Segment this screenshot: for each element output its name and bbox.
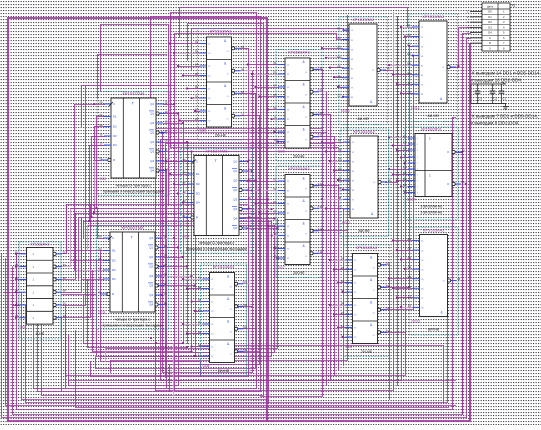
svg-text:DD10: DD10	[341, 109, 350, 113]
svg-text:O: O	[372, 70, 374, 72]
svg-text:DD3: DD3	[99, 311, 106, 315]
svg-text:O: O	[373, 182, 375, 184]
svg-text:10: 10	[198, 330, 201, 334]
svg-text:Q4: Q4	[150, 159, 154, 163]
svg-text:04: 04	[341, 279, 344, 283]
svg-text:01: 01	[15, 250, 18, 254]
svg-text:Q4: Q4	[150, 169, 154, 173]
svg-text:09: 09	[100, 100, 103, 104]
svg-text:12: 12	[274, 129, 277, 133]
svg-text:01: 01	[407, 24, 411, 28]
svg-text:09: 09	[274, 106, 277, 110]
svg-text:06: 06	[248, 196, 251, 200]
svg-text:КР1533ЛА3: КР1533ЛА3	[356, 245, 378, 250]
svg-text:13: 13	[274, 255, 277, 259]
svg-text:08: 08	[387, 306, 390, 310]
svg-text:O: O	[373, 335, 375, 337]
svg-text:R: R	[489, 41, 491, 45]
svg-text:O: O	[305, 72, 307, 74]
svg-text:Q4: Q4	[149, 303, 153, 307]
svg-text:четыре D-триггера с: четыре D-триггера с	[199, 241, 235, 245]
svg-text:09: 09	[99, 234, 102, 238]
svg-text:DD8: DD8	[203, 364, 210, 368]
svg-text:03: 03	[407, 43, 411, 47]
svg-text:09: 09	[183, 158, 186, 162]
svg-text:14: 14	[164, 301, 167, 305]
svg-text:12: 12	[341, 324, 344, 328]
svg-text:12: 12	[198, 343, 201, 347]
svg-text:04: 04	[407, 52, 411, 56]
svg-text:06: 06	[164, 272, 167, 276]
svg-text:03: 03	[337, 46, 341, 50]
svg-text:и выводам 8 DD2-DD4.: и выводам 8 DD2-DD4.	[471, 121, 520, 126]
svg-text:прямыми и инверсными выходами: прямыми и инверсными выходами	[103, 190, 164, 194]
svg-text:КР1533ТМ8: КР1533ТМ8	[206, 149, 229, 154]
svg-text:01: 01	[403, 135, 407, 139]
svg-text:Q4: Q4	[149, 293, 153, 297]
svg-text:X: X	[318, 227, 320, 231]
svg-text:6-НЕ: 6-НЕ	[36, 332, 45, 336]
svg-text:12: 12	[63, 314, 66, 318]
svg-text:D4: D4	[196, 201, 200, 205]
svg-text:11: 11	[407, 81, 410, 85]
svg-text:10: 10	[165, 119, 168, 123]
svg-text:DD9: DD9	[346, 345, 353, 349]
svg-text:DD5: DD5	[200, 129, 207, 133]
svg-text:O: O	[447, 150, 449, 154]
svg-text:O: O	[442, 67, 444, 69]
svg-text:08: 08	[320, 227, 323, 231]
svg-text:Q2: Q2	[149, 265, 153, 269]
svg-text:08: 08	[244, 325, 247, 329]
svg-text:DD14: DD14	[407, 198, 416, 202]
svg-text:X: X	[243, 348, 245, 352]
svg-text:09: 09	[15, 289, 18, 293]
svg-text:R: R	[112, 292, 114, 296]
svg-text:O: O	[230, 287, 232, 289]
svg-text:O: O	[305, 95, 307, 97]
svg-text:05: 05	[274, 93, 277, 97]
svg-text:01: 01	[198, 276, 201, 280]
svg-text:2И-НЕ: 2И-НЕ	[293, 271, 305, 275]
svg-text:13: 13	[274, 138, 277, 142]
svg-text:X: X	[318, 182, 320, 186]
svg-text:X: X	[243, 280, 245, 284]
svg-text:11: 11	[337, 84, 340, 88]
svg-text:O: O	[447, 182, 449, 186]
svg-text:01: 01	[99, 290, 102, 294]
svg-text:D0: D0	[488, 10, 492, 14]
svg-text:X: X	[386, 261, 388, 265]
svg-text:01: 01	[408, 237, 412, 241]
svg-text:8И-НЕ: 8И-НЕ	[428, 328, 440, 332]
svg-text:четыре D-триггера с: четыре D-триггера с	[115, 318, 151, 322]
svg-text:04: 04	[403, 183, 407, 187]
svg-text:10: 10	[274, 232, 277, 236]
svg-text:13: 13	[198, 353, 201, 357]
svg-text:DD12: DD12	[411, 106, 420, 110]
svg-text:КР1533ЛН1: КР1533ЛН1	[31, 242, 50, 246]
svg-text:05: 05	[403, 189, 407, 193]
svg-text:Q1: Q1	[233, 160, 237, 164]
svg-text:O: O	[305, 189, 307, 191]
svg-text:02: 02	[338, 148, 342, 152]
svg-text:8И-НЕ: 8И-НЕ	[358, 117, 370, 121]
svg-text:02: 02	[341, 266, 344, 270]
svg-text:06: 06	[407, 71, 411, 75]
svg-text:D2: D2	[488, 20, 492, 24]
svg-text:02: 02	[248, 158, 251, 162]
svg-text:13: 13	[403, 141, 407, 145]
svg-text:10: 10	[274, 116, 277, 120]
svg-text:O: O	[305, 117, 307, 119]
svg-text:06: 06	[408, 285, 412, 289]
svg-text:03: 03	[320, 182, 323, 186]
svg-text:X: X	[386, 306, 388, 310]
svg-text:10: 10	[403, 160, 407, 164]
svg-text:13: 13	[100, 141, 103, 145]
svg-text:08: 08	[387, 67, 390, 71]
svg-text:X: X	[318, 111, 320, 115]
svg-text:02: 02	[274, 187, 277, 191]
svg-text:06: 06	[462, 181, 465, 185]
svg-text:09: 09	[403, 166, 407, 170]
svg-text:D3: D3	[196, 192, 200, 196]
svg-text:13: 13	[195, 117, 198, 121]
svg-text:O: O	[305, 140, 307, 142]
svg-text:X: X	[386, 329, 388, 333]
svg-text:КР1533ЛА3: КР1533ЛА3	[288, 166, 310, 171]
svg-text:D3: D3	[112, 268, 116, 272]
svg-text:04: 04	[338, 167, 342, 171]
svg-text:02: 02	[337, 36, 341, 40]
svg-text:и выводам 16 DD2-DD4.: и выводам 16 DD2-DD4.	[471, 78, 523, 83]
svg-text:D2: D2	[113, 125, 117, 129]
svg-text:D1: D1	[488, 15, 492, 19]
svg-text:05: 05	[100, 123, 103, 127]
svg-text:03: 03	[15, 263, 18, 267]
svg-text:03: 03	[320, 66, 323, 70]
svg-text:КР1533ЛА3: КР1533ЛА3	[213, 264, 235, 269]
svg-text:13: 13	[15, 314, 18, 318]
svg-text:Цепь: Цепь	[487, 5, 494, 9]
svg-text:01: 01	[274, 61, 277, 65]
svg-text:3-3И-2ИЛИ-НЕ: 3-3И-2ИЛИ-НЕ	[421, 205, 443, 209]
svg-text:04: 04	[63, 263, 66, 267]
svg-text:O: O	[305, 256, 307, 258]
svg-text:C3: C3	[478, 97, 482, 101]
svg-text:Q3: Q3	[150, 140, 154, 144]
svg-text:12: 12	[408, 304, 412, 308]
svg-text:10: 10	[195, 95, 198, 99]
svg-text:16: 16	[248, 167, 251, 171]
svg-text:02: 02	[403, 171, 407, 175]
svg-text:01: 01	[100, 156, 103, 160]
svg-text:D1: D1	[196, 172, 200, 176]
svg-text:8И-НЕ: 8И-НЕ	[428, 114, 440, 118]
svg-text:01: 01	[338, 139, 342, 143]
svg-text:O: O	[373, 268, 375, 270]
svg-text:13: 13	[99, 275, 102, 279]
svg-text:прямыми и инверсными выходами: прямыми и инверсными выходами	[186, 247, 247, 251]
svg-text:Q2: Q2	[150, 121, 154, 125]
svg-text:05: 05	[337, 65, 341, 69]
svg-text:DD4: DD4	[183, 235, 190, 239]
svg-text:КР1533ЛА2: КР1533ЛА2	[353, 17, 375, 22]
svg-text:08: 08	[320, 111, 323, 115]
svg-text:O: O	[227, 96, 229, 98]
svg-text:03: 03	[403, 177, 407, 181]
svg-text:C1: C1	[502, 97, 506, 101]
svg-text:R: R	[196, 216, 198, 220]
svg-text:X: X	[318, 250, 320, 254]
svg-text:D3: D3	[113, 134, 117, 138]
svg-text:2И-НЕ: 2И-НЕ	[218, 369, 230, 373]
svg-text:C: C	[196, 160, 198, 164]
svg-text:X: X	[318, 66, 320, 70]
svg-text:X1: X1	[512, 3, 516, 7]
svg-text:16: 16	[164, 244, 167, 248]
svg-text:05: 05	[338, 177, 342, 181]
svg-text:12: 12	[407, 90, 411, 94]
svg-text:2И-НЕ: 2И-НЕ	[215, 134, 227, 138]
svg-text:1: 1	[429, 137, 431, 141]
svg-text:КР1533ЛА3: КР1533ЛА3	[288, 49, 310, 54]
svg-text:Q1: Q1	[150, 112, 154, 116]
svg-text:O: O	[373, 290, 375, 292]
svg-text:03: 03	[338, 158, 342, 162]
svg-text:К выводам 7 DD1 и DD5-DD14,: К выводам 7 DD1 и DD5-DD14,	[472, 114, 538, 119]
svg-text:12: 12	[183, 190, 186, 194]
svg-text:07: 07	[164, 263, 167, 267]
svg-text:КР1533ТМ8: КР1533ТМ8	[122, 225, 145, 230]
svg-text:04: 04	[195, 63, 198, 67]
svg-text:O: O	[305, 211, 307, 213]
svg-text:02: 02	[63, 250, 66, 254]
svg-text:DD1: DD1	[20, 326, 27, 330]
svg-text:12: 12	[100, 132, 103, 136]
svg-text:D4: D4	[488, 31, 492, 35]
svg-text:06: 06	[63, 276, 66, 280]
svg-text:КР1533ЛА3: КР1533ЛА3	[210, 28, 232, 33]
svg-text:1: 1	[429, 174, 431, 178]
svg-text:10: 10	[63, 301, 66, 305]
svg-text:D4: D4	[113, 143, 117, 147]
svg-text:02: 02	[407, 33, 411, 37]
svg-text:07: 07	[165, 129, 168, 133]
svg-text:05: 05	[195, 72, 198, 76]
svg-text:Q2: Q2	[233, 188, 237, 192]
svg-text:15: 15	[164, 291, 167, 295]
svg-text:3-3И-2ИЛИ-НЕ: 3-3И-2ИЛИ-НЕ	[421, 211, 443, 215]
svg-text:08: 08	[457, 64, 460, 68]
svg-text:КР1533ТМ8: КР1533ТМ8	[123, 91, 146, 96]
svg-text:Q2: Q2	[233, 179, 237, 183]
svg-text:06: 06	[241, 67, 244, 71]
svg-text:O: O	[230, 354, 232, 356]
svg-text:O: O	[305, 234, 307, 236]
svg-text:O: O	[227, 51, 229, 53]
svg-text:DD6: DD6	[278, 150, 285, 154]
svg-text:01: 01	[337, 27, 341, 31]
svg-text:01: 01	[195, 40, 198, 44]
svg-text:05: 05	[99, 257, 102, 261]
svg-text:12: 12	[338, 205, 342, 209]
svg-text:Q3: Q3	[149, 284, 153, 288]
svg-text:12: 12	[99, 266, 102, 270]
svg-text:10: 10	[164, 253, 167, 257]
svg-text:КР1533ЛА2: КР1533ЛА2	[354, 129, 376, 134]
svg-text:04: 04	[337, 55, 341, 59]
svg-text:05: 05	[341, 289, 344, 293]
svg-text:08: 08	[457, 277, 460, 281]
svg-text:03: 03	[244, 280, 247, 284]
svg-text:07: 07	[248, 186, 251, 190]
svg-text:Q3: Q3	[233, 198, 237, 202]
svg-text:13: 13	[341, 334, 344, 338]
svg-text:11: 11	[403, 154, 406, 158]
svg-text:К выводам 14 DD1 и DD5-DD14,: К выводам 14 DD1 и DD5-DD14,	[472, 71, 541, 76]
svg-text:D2: D2	[196, 182, 200, 186]
svg-text:05: 05	[183, 180, 186, 184]
svg-text:12: 12	[195, 108, 198, 112]
svg-text:03: 03	[408, 256, 412, 260]
svg-text:Q1: Q1	[149, 246, 153, 250]
svg-text:D4: D4	[112, 277, 116, 281]
svg-text:O: O	[230, 332, 232, 334]
svg-text:01: 01	[183, 214, 186, 218]
svg-text:O: O	[230, 309, 232, 311]
svg-text:11: 11	[338, 196, 341, 200]
svg-text:02: 02	[274, 71, 277, 75]
svg-text:11: 11	[408, 294, 411, 298]
svg-text:D3: D3	[488, 25, 492, 29]
svg-text:Q1: Q1	[149, 236, 153, 240]
svg-text:06: 06	[337, 74, 341, 78]
svg-text:08: 08	[63, 289, 66, 293]
svg-text:C: C	[489, 36, 491, 40]
svg-text:КР1533ЛА2: КР1533ЛА2	[423, 227, 445, 232]
svg-text:02: 02	[165, 100, 168, 104]
svg-text:Q3: Q3	[233, 207, 237, 211]
svg-text:O: O	[227, 74, 229, 76]
svg-text:05: 05	[408, 275, 412, 279]
svg-text:O: O	[227, 119, 229, 121]
svg-text:06: 06	[338, 186, 342, 190]
svg-text:O: O	[373, 313, 375, 315]
svg-text:DD11: DD11	[342, 221, 351, 225]
svg-text:06: 06	[387, 284, 390, 288]
svg-text:04: 04	[183, 170, 186, 174]
svg-text:04: 04	[274, 200, 277, 204]
svg-text:DD2: DD2	[100, 177, 107, 181]
svg-text:X: X	[243, 303, 245, 307]
svg-text:03: 03	[387, 261, 390, 265]
svg-text:14: 14	[248, 224, 251, 228]
svg-text:02: 02	[164, 234, 167, 238]
svg-text:КР1533ЛА2: КР1533ЛА2	[423, 14, 445, 19]
svg-text:05: 05	[274, 210, 277, 214]
svg-text:04: 04	[99, 247, 102, 251]
svg-text:DD13: DD13	[412, 320, 421, 324]
svg-text:D2: D2	[112, 259, 116, 263]
svg-text:04: 04	[198, 298, 201, 302]
svg-text:четыре D-триггера с: четыре D-триггера с	[116, 184, 152, 188]
svg-text:06: 06	[165, 138, 168, 142]
svg-text:Q3: Q3	[150, 150, 154, 154]
svg-text:C: C	[113, 102, 115, 106]
svg-text:2И-НЕ: 2И-НЕ	[361, 350, 373, 354]
svg-text:X: X	[318, 88, 320, 92]
svg-text:06: 06	[244, 303, 247, 307]
svg-text:X: X	[386, 284, 388, 288]
svg-text:04: 04	[100, 113, 103, 117]
svg-text:16: 16	[165, 110, 168, 114]
svg-text:12: 12	[403, 147, 407, 151]
svg-text:12: 12	[337, 93, 341, 97]
svg-text:03: 03	[241, 45, 244, 49]
svg-text:прямыми и инверсными выходами: прямыми и инверсными выходами	[102, 324, 163, 328]
svg-text:X: X	[318, 205, 320, 209]
svg-text:8И-НЕ: 8И-НЕ	[359, 229, 371, 233]
svg-text:Q2: Q2	[150, 131, 154, 135]
svg-text:R: R	[113, 158, 115, 162]
svg-text:D1: D1	[112, 249, 116, 253]
svg-text:X: X	[243, 325, 245, 329]
svg-text:Q4: Q4	[233, 226, 237, 230]
svg-text:C2: C2	[493, 97, 497, 101]
svg-text:02: 02	[408, 247, 412, 251]
svg-text:15: 15	[165, 157, 168, 161]
svg-text:10: 10	[248, 177, 251, 181]
svg-text:10: 10	[341, 311, 344, 315]
svg-text:Q3: Q3	[149, 274, 153, 278]
svg-text:14: 14	[462, 149, 465, 153]
svg-text:06: 06	[320, 88, 323, 92]
svg-text:DD7: DD7	[278, 266, 285, 270]
svg-text:02: 02	[195, 50, 198, 54]
svg-text:Q1: Q1	[150, 102, 154, 106]
svg-text:Q1: Q1	[233, 169, 237, 173]
svg-text:09: 09	[198, 321, 201, 325]
svg-text:2И-НЕ: 2И-НЕ	[293, 155, 305, 159]
svg-text:04: 04	[408, 266, 412, 270]
svg-text:05: 05	[407, 62, 411, 66]
svg-text:05: 05	[15, 276, 18, 280]
svg-text:06: 06	[320, 205, 323, 209]
svg-text:01: 01	[341, 257, 344, 261]
svg-text:02: 02	[198, 285, 201, 289]
svg-text:04: 04	[274, 84, 277, 88]
svg-text:D1: D1	[113, 115, 117, 119]
svg-text:C: C	[112, 236, 114, 240]
svg-text:X: X	[318, 133, 320, 137]
svg-text:05: 05	[198, 308, 201, 312]
svg-text:01: 01	[274, 178, 277, 182]
svg-text:Q2: Q2	[149, 255, 153, 259]
svg-text:13: 13	[183, 199, 186, 203]
svg-text:08: 08	[241, 90, 244, 94]
svg-text:09: 09	[274, 223, 277, 227]
svg-text:08: 08	[388, 179, 391, 183]
svg-text:12: 12	[274, 245, 277, 249]
svg-text:КР1533ЛР11: КР1533ЛР11	[421, 127, 441, 131]
svg-text:O: O	[443, 281, 445, 283]
svg-text:09: 09	[195, 85, 198, 89]
svg-text:09: 09	[341, 302, 344, 306]
svg-text:15: 15	[248, 215, 251, 219]
svg-text:Q4: Q4	[233, 217, 237, 221]
